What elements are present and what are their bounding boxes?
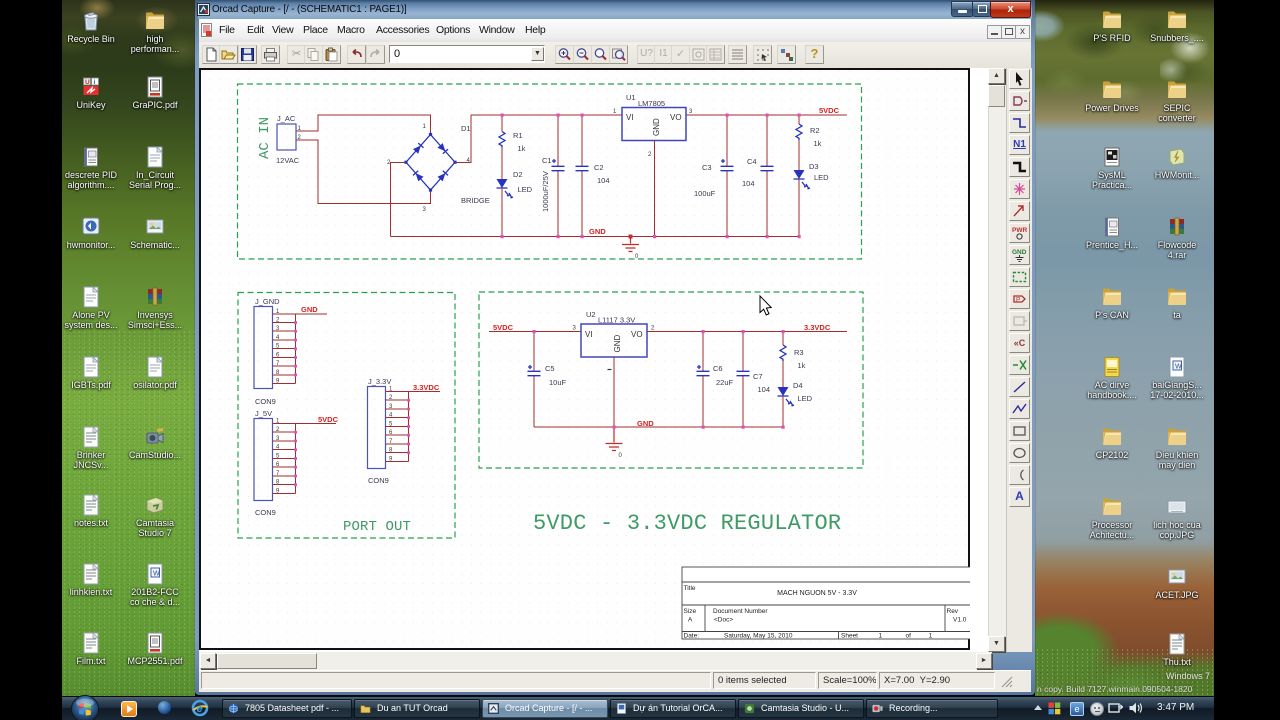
- svg-text:of: of: [906, 633, 912, 640]
- junction C6 bottom: [702, 426, 705, 429]
- junction C5 top: [533, 330, 536, 333]
- svg-text:1k: 1k: [814, 139, 822, 148]
- svg-text:3: 3: [573, 326, 577, 332]
- LED D2: [497, 148, 533, 237]
- ground symbol 0 (3.3V section): [606, 427, 623, 459]
- svg-text:1: 1: [929, 633, 933, 640]
- mouse cursor: [760, 296, 771, 315]
- resistor R1: [499, 115, 526, 153]
- work area: [199, 68, 1006, 652]
- svg-text:LED: LED: [814, 173, 829, 182]
- svg-text:LED: LED: [798, 394, 813, 403]
- ground rail GND 5V section: [391, 236, 800, 238]
- svg-text:C6: C6: [713, 364, 723, 373]
- svg-text:2: 2: [648, 152, 652, 158]
- junctions J_GND bus: [294, 321, 297, 376]
- junction C4 top: [766, 114, 769, 117]
- wire AC phase 2: [306, 140, 431, 204]
- junction U1 pin2: [653, 235, 656, 238]
- v scrollbar: [988, 68, 1007, 652]
- svg-text:CON9: CON9: [368, 476, 389, 485]
- svg-text:C3: C3: [702, 163, 712, 172]
- svg-text:MACH NGUON 5V - 3.3V: MACH NGUON 5V - 3.3V: [777, 590, 857, 597]
- connector J_GND: [254, 297, 296, 406]
- svg-text:10uF: 10uF: [549, 378, 567, 387]
- svg-text:C4: C4: [747, 157, 757, 166]
- svg-text:C5: C5: [545, 364, 555, 373]
- svg-text:GND: GND: [637, 419, 654, 428]
- svg-text:5VDC - 3.3VDC REGULATOR: 5VDC - 3.3VDC REGULATOR: [533, 511, 841, 536]
- svg-text:3.3VDC: 3.3VDC: [413, 383, 440, 392]
- svg-text:D3: D3: [809, 162, 819, 171]
- capacitor C6: [697, 332, 734, 428]
- svg-text:Size: Size: [684, 608, 697, 615]
- wire 5VDC stub (port): [296, 423, 337, 425]
- h scrollbar: [199, 652, 992, 670]
- AC IN section boundary: [238, 84, 862, 259]
- wire AC phase 1: [306, 115, 431, 135]
- window frame: [195, 0, 1035, 695]
- svg-text:LM7805: LM7805: [638, 99, 665, 108]
- bridge rectifier D1: [387, 124, 490, 213]
- svg-text:22uF: 22uF: [716, 378, 734, 387]
- junction C3 top: [726, 114, 729, 117]
- svg-text:4: 4: [467, 158, 471, 164]
- svg-text:GND: GND: [652, 118, 661, 136]
- windows watermark: [1166, 671, 1226, 681]
- svg-text:J_AC: J_AC: [277, 114, 296, 123]
- wire 5V rail output: [686, 114, 847, 116]
- svg-text:CON9: CON9: [255, 397, 276, 406]
- svg-text:C7: C7: [753, 372, 763, 381]
- toolbar: [199, 42, 1031, 69]
- 3.3V regulator section boundary: [479, 292, 863, 468]
- svg-text:J_3.3V: J_3.3V: [368, 377, 391, 386]
- junction C6 top: [702, 330, 705, 333]
- svg-text:3: 3: [689, 109, 693, 115]
- junction bridge+ rail: [501, 114, 504, 117]
- svg-text:GND: GND: [589, 227, 606, 236]
- svg-text:VO: VO: [670, 113, 682, 122]
- svg-text:Rev: Rev: [947, 608, 959, 615]
- right desktop photo strip: [1035, 0, 1214, 696]
- wire GND stub (port): [296, 313, 328, 315]
- junction C1 bottom: [557, 235, 560, 238]
- svg-text:P: P: [1016, 297, 1020, 304]
- junction D4 bottom: [782, 426, 785, 429]
- svg-text:2: 2: [651, 326, 655, 332]
- junction D2 bottom: [501, 235, 504, 238]
- capacitor C5: [528, 332, 567, 428]
- junction R2 top: [798, 114, 801, 117]
- svg-text:1k: 1k: [798, 361, 806, 370]
- junction R3 top: [782, 330, 785, 333]
- junctions J_5V bus: [294, 431, 297, 486]
- svg-text:Saturday, May 15, 2010: Saturday, May 15, 2010: [724, 633, 793, 640]
- connector J_5V: [254, 409, 296, 517]
- svg-text:GND: GND: [301, 305, 318, 314]
- regulator U1 LM7805: [613, 93, 693, 237]
- junction D3 bottom: [798, 235, 801, 238]
- capacitor C7: [737, 332, 771, 428]
- svg-text:CON9: CON9: [255, 508, 276, 517]
- page with dot grid: [199, 68, 970, 650]
- menu bar: [199, 19, 1031, 43]
- svg-text:U1: U1: [626, 93, 636, 102]
- wire bridge positive riser: [455, 115, 471, 162]
- svg-text:VI: VI: [626, 113, 634, 122]
- svg-text:3: 3: [423, 207, 427, 213]
- wire 5V rail input: [471, 114, 622, 116]
- svg-text:1: 1: [879, 633, 883, 640]
- svg-text:C1: C1: [542, 156, 552, 165]
- svg-text:GND: GND: [1012, 249, 1027, 256]
- svg-text:3.3VDC: 3.3VDC: [804, 323, 831, 332]
- junction C1 top: [557, 114, 560, 117]
- title block: [682, 567, 972, 639]
- svg-text:5VDC: 5VDC: [493, 323, 514, 332]
- svg-text:V1.0: V1.0: [953, 617, 967, 624]
- LED D4: [778, 361, 813, 427]
- svg-text:R3: R3: [794, 348, 804, 357]
- svg-text:PORT OUT: PORT OUT: [343, 519, 411, 535]
- wire 5VDC input (3.3V section): [489, 331, 581, 333]
- svg-text:VI: VI: [585, 330, 593, 339]
- svg-text:1000uF/25V: 1000uF/25V: [541, 171, 550, 212]
- junction U2 gnd: [613, 426, 616, 429]
- svg-text:R1: R1: [513, 131, 523, 140]
- svg-text:R2: R2: [810, 126, 820, 135]
- wire 3.3VDC output rail: [647, 331, 847, 333]
- wire 3.3VDC stub (port): [409, 391, 441, 393]
- wire bridge negative to ground rail: [391, 162, 407, 236]
- title bar: [198, 0, 1032, 19]
- capacitor C2: [576, 115, 610, 237]
- svg-text:VO: VO: [631, 330, 643, 339]
- svg-text:1k: 1k: [518, 144, 526, 153]
- ground symbol 0 (5V section): [622, 235, 639, 261]
- svg-text:<Doc>: <Doc>: [714, 617, 733, 624]
- left desktop photo strip: [62, 0, 195, 696]
- svg-text:0: 0: [619, 453, 623, 459]
- svg-text:D1: D1: [461, 124, 471, 133]
- junction C4 bottom: [766, 235, 769, 238]
- svg-text:D2: D2: [513, 170, 523, 179]
- svg-text:104: 104: [742, 179, 755, 188]
- svg-text:D4: D4: [793, 381, 803, 390]
- svg-text:12VAC: 12VAC: [276, 156, 300, 165]
- junction C7 top: [742, 330, 745, 333]
- svg-text:Document Number: Document Number: [713, 608, 768, 615]
- capacitor C3: [694, 115, 734, 237]
- svg-text:C2: C2: [594, 163, 604, 172]
- junction C2 bottom: [581, 235, 584, 238]
- svg-text:BRIDGE: BRIDGE: [461, 196, 490, 205]
- svg-text:Title: Title: [684, 585, 696, 592]
- junction C2 top: [581, 114, 584, 117]
- svg-text:Date:: Date:: [684, 633, 700, 640]
- svg-text:J_5V: J_5V: [255, 409, 272, 418]
- resistor R2: [796, 115, 822, 148]
- svg-text:100uF: 100uF: [694, 189, 716, 198]
- svg-text:104: 104: [758, 385, 771, 394]
- svg-text:1: 1: [613, 109, 617, 115]
- PORT OUT section boundary: [238, 293, 455, 539]
- svg-text:e: e: [197, 703, 203, 715]
- svg-text:104: 104: [597, 176, 610, 185]
- resistor R3: [780, 332, 806, 371]
- svg-text:5VDC: 5VDC: [318, 415, 339, 424]
- svg-text:J_GND: J_GND: [255, 297, 280, 306]
- svg-text:U2: U2: [586, 310, 596, 319]
- svg-text:A: A: [688, 617, 693, 624]
- svg-text:GND: GND: [613, 335, 622, 353]
- svg-text:AC IN: AC IN: [257, 117, 273, 159]
- connector J_AC: [276, 114, 306, 165]
- junctions J_3.3V bus: [407, 399, 410, 454]
- ground rail GND (3.3V section): [534, 426, 783, 428]
- svg-text:LED: LED: [518, 185, 533, 194]
- regulator U2 L1117: [572, 310, 656, 427]
- capacitor C4: [742, 115, 774, 237]
- svg-text:1: 1: [423, 124, 427, 130]
- junction C7 bottom: [742, 426, 745, 429]
- capacitor C1: [541, 115, 565, 237]
- svg-text:L1117 3.3V: L1117 3.3V: [598, 316, 635, 325]
- svg-text:Sheet: Sheet: [841, 633, 858, 640]
- palette: [1006, 68, 1032, 652]
- junction C3 bottom: [726, 235, 729, 238]
- svg-text:PWR: PWR: [1012, 227, 1027, 234]
- svg-text:5VDC: 5VDC: [819, 106, 840, 115]
- LED D3: [794, 140, 830, 237]
- connector J_3.3V: [368, 377, 409, 485]
- status bar: [199, 670, 1031, 692]
